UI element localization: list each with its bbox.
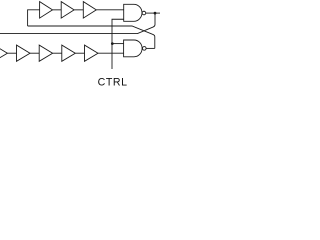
svg-text:CTRL: CTRL <box>98 77 128 89</box>
